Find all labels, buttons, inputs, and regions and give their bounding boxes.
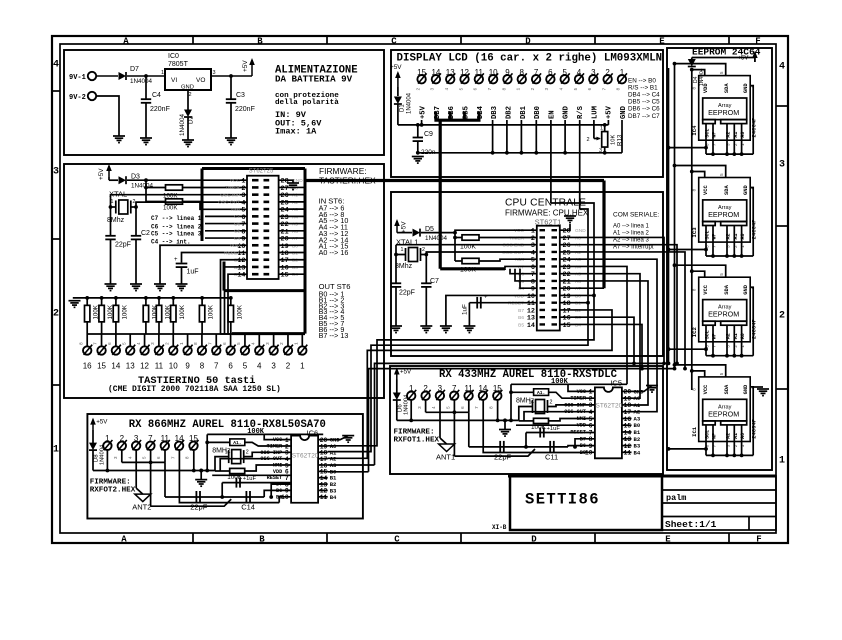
svg-text:A7: A7	[292, 236, 298, 242]
pulldown resistor 100K at x=202.1	[200, 296, 204, 300]
svg-text:palm: palm	[666, 493, 686, 503]
rail lower	[93, 470, 215, 472]
wire A1 to TIMER pin 2	[549, 392, 595, 398]
diode D6	[393, 393, 401, 401]
pulldown resistor 100K at x=87.2	[85, 296, 89, 300]
svg-text:22pF: 22pF	[399, 290, 415, 297]
wire CPU A4 to RX433 VCC rail	[560, 266, 627, 384]
svg-text:B: B	[257, 37, 263, 47]
wire B5 pin 10	[583, 451, 595, 453]
svg-text:1: 1	[779, 456, 785, 467]
wire CPU A6 to RX433 A1	[560, 281, 648, 405]
ST62T1 pin 11 / pin 18	[540, 302, 546, 304]
svg-text:220nF: 220nF	[235, 106, 255, 113]
svg-text:5: 5	[121, 342, 127, 345]
regulator IC0 7805T box	[165, 69, 211, 90]
ground under C3	[225, 137, 237, 139]
svg-text:7: 7	[601, 88, 607, 91]
capacitor C9	[413, 137, 423, 139]
svg-text:A2 --> linea 3: A2 --> linea 3	[613, 238, 650, 244]
IC ST62T1 CPU body	[537, 226, 560, 331]
title block bottom row divider	[748, 517, 750, 531]
svg-text:7: 7	[474, 406, 480, 409]
RX 433MHz section box	[390, 366, 663, 474]
svg-text:5: 5	[573, 88, 579, 91]
EEPROM IC1 SDA wire	[675, 365, 726, 377]
wire VCC rail to pin 1	[568, 384, 595, 391]
svg-text:ANT1: ANT1	[436, 453, 455, 462]
wire D8 to rail	[92, 451, 94, 471]
svg-text:A2: A2	[726, 132, 732, 138]
svg-text:RESET: RESET	[570, 430, 586, 436]
svg-text:A5: A5	[292, 222, 298, 228]
ground top right of chip	[622, 386, 652, 392]
svg-text:A0: A0	[740, 433, 746, 439]
svg-text:B6: B6	[276, 488, 282, 494]
svg-text:B1: B1	[292, 251, 298, 257]
thick data bus DB4-DB7 stubs	[434, 112, 437, 120]
svg-text:A0 --> 16: A0 --> 16	[319, 248, 349, 257]
svg-text:5: 5	[719, 71, 725, 74]
ST62T25 pin 9 / pin 20	[252, 237, 259, 240]
svg-text:della polarità: della polarità	[275, 99, 339, 107]
EEPROM IC1 VCC wire	[692, 371, 705, 377]
wire CPU B0 down to RX866 A0	[328, 295, 594, 445]
wire crystal pin2 to OSC INP pin 3	[244, 452, 291, 456]
wire C3 to ground	[230, 103, 232, 138]
keyboard pulldown ground rail	[73, 297, 231, 299]
svg-text:VCC: VCC	[703, 384, 709, 394]
svg-text:10: 10	[281, 494, 289, 501]
svg-text:+5V: +5V	[400, 369, 412, 376]
EEPROM IC2 SDA wire	[675, 265, 726, 277]
wire resistor to TIMER pin 2	[479, 237, 537, 239]
frame column ticks bottom	[192, 533, 194, 543]
capacitor C7 CPU	[421, 282, 431, 284]
svg-text:5: 5	[458, 88, 464, 91]
thick bus from keyboard ends at pin20 A7	[602, 181, 605, 289]
EEPROM IC1 lower pin labels	[705, 425, 707, 442]
resistor 100K to NMI pin 5	[230, 468, 245, 473]
svg-text:8: 8	[501, 88, 507, 91]
wire CPU B4 to EEPROM bus	[560, 324, 642, 368]
crystal 8MHz IC6	[232, 450, 241, 464]
wire CPU A5 to RX433 A0	[560, 274, 640, 399]
svg-text:TIMER: TIMER	[267, 444, 283, 450]
svg-text:3: 3	[150, 342, 156, 345]
svg-text:A3: A3	[292, 207, 298, 213]
svg-text:100K: 100K	[460, 267, 476, 274]
EEPROM IC2 GND wire	[750, 287, 753, 356]
terminal keyboard 3	[273, 334, 275, 346]
SAW filter A1	[207, 441, 230, 443]
svg-text:RESET: RESET	[224, 250, 240, 256]
wire GND pin1 to ground rail	[621, 120, 623, 153]
svg-text:SCL: SCL	[705, 430, 711, 439]
svg-text:5: 5	[236, 342, 242, 345]
ST62T1 pin 12 / pin 17	[540, 309, 546, 311]
wires B7 B6 B5 to bus line	[221, 260, 248, 334]
title block thick top line	[508, 475, 776, 478]
terminal keyboard 5	[244, 334, 246, 346]
ground under 22pF CPU	[390, 325, 402, 327]
svg-text:1: 1	[53, 445, 59, 456]
thick bus keyboard to CPU	[305, 179, 604, 182]
wire 1uF to ground CPU	[468, 303, 470, 326]
svg-text:+5V: +5V	[738, 56, 749, 62]
EEPROM IC1 array box	[703, 399, 747, 421]
svg-text:NMI: NMI	[577, 416, 586, 422]
pulldown resistor 100K at x=159	[157, 296, 161, 300]
svg-text:+5V: +5V	[242, 60, 249, 72]
svg-text:2: 2	[286, 362, 291, 371]
ST62T25 pin 8 / pin 21	[252, 230, 259, 233]
svg-text:8: 8	[185, 456, 191, 459]
ground under 1uF	[176, 283, 188, 285]
wire CPU B1 down to RX866 A1	[328, 303, 588, 452]
wire xtal to 22pF cap1	[110, 207, 112, 236]
svg-text:B: B	[259, 535, 265, 545]
svg-text:4: 4	[53, 60, 59, 71]
svg-text:SDA: SDA	[724, 384, 730, 394]
EEPROM +5V top wire	[692, 57, 755, 59]
svg-text:F: F	[756, 535, 761, 545]
terminal keyboard 7	[215, 334, 217, 346]
svg-text:A: A	[123, 37, 129, 47]
wire node down to resistors	[145, 180, 147, 201]
svg-text:2: 2	[415, 88, 421, 91]
lower rail b	[150, 462, 152, 506]
svg-text:1N4004: 1N4004	[407, 92, 413, 114]
wire GND pin5 to ground rail	[564, 120, 566, 153]
drawing frame inner border	[60, 44, 776, 533]
terminal 9V-1	[88, 72, 96, 80]
svg-text:A6: A6	[292, 229, 298, 235]
svg-text:1: 1	[179, 342, 185, 345]
svg-text:GND: GND	[181, 85, 194, 91]
svg-text:3: 3	[53, 167, 59, 178]
wire pin15 +5V column	[421, 120, 423, 125]
wire to C7 cap CPU	[425, 255, 427, 284]
svg-text:R/S: R/S	[577, 105, 585, 119]
capacitor C3	[226, 98, 236, 100]
wire xtal to cap C2	[135, 207, 137, 236]
svg-text:VDD: VDD	[703, 83, 709, 93]
svg-text:A0: A0	[740, 132, 746, 138]
svg-text:IC0: IC0	[168, 53, 179, 60]
wire LUM to potentiometer wiper	[593, 120, 595, 139]
capacitor C4	[141, 98, 151, 100]
svg-text:C: C	[391, 37, 397, 47]
svg-text:A0: A0	[292, 185, 298, 191]
svg-text:C14: C14	[241, 503, 255, 512]
wire CPU A2 right vertical	[560, 252, 685, 369]
ST62T25 pin 2 / pin 27	[252, 186, 259, 189]
svg-text:E: E	[659, 37, 665, 47]
svg-text:COM SERIALE:: COM SERIALE:	[613, 212, 659, 219]
svg-text:GND: GND	[563, 105, 571, 119]
svg-text:9V-1: 9V-1	[69, 74, 86, 82]
svg-text:1: 1	[401, 247, 404, 253]
junction node C3	[229, 74, 233, 78]
+5V rail wire	[398, 124, 609, 126]
svg-text:+: +	[484, 295, 488, 301]
svg-text:14: 14	[111, 362, 120, 371]
LCD display section box	[391, 50, 663, 177]
terminal keyboard 15	[101, 334, 103, 346]
wires ST62T25 right pins to bus bar	[279, 186, 304, 188]
ST62T25 pin 7 / pin 22	[252, 222, 259, 225]
capacitor 22pF keyboard 1	[105, 235, 115, 237]
capacitor 22pF CPU	[391, 282, 401, 284]
ST62T1 pin 14 / pin 15	[540, 323, 546, 325]
svg-text:1: 1	[225, 450, 228, 456]
svg-text:WP: WP	[712, 333, 718, 339]
wire 1uF to ground	[181, 267, 183, 284]
terminal keyboard 16	[86, 334, 88, 346]
middle band wire H4 to EEPROM SCL bus	[375, 363, 669, 465]
svg-text:E: E	[665, 535, 671, 545]
wire LCD R/S to CPU B1	[580, 209, 588, 303]
EEPROM block IC1 ground symbol	[753, 386, 763, 388]
ST62T25 pin 12 / pin 17	[252, 258, 259, 261]
svg-text:6: 6	[460, 406, 466, 409]
wire OSC OUT pin 4	[220, 459, 291, 471]
antenna ANT2	[135, 494, 151, 502]
svg-text:DB6 --> C6: DB6 --> C6	[628, 106, 660, 113]
svg-text:EEPROM: EEPROM	[708, 210, 739, 219]
terminal keyboard 13	[129, 334, 131, 346]
pulldown resistor 100K at x=145.9	[144, 296, 148, 300]
svg-text:NMI: NMI	[231, 207, 240, 213]
svg-text:6: 6	[228, 362, 233, 371]
svg-text:SCL: SCL	[705, 330, 711, 339]
potentiometer R13 wiper arrow	[594, 138, 600, 140]
svg-text:3: 3	[265, 342, 271, 345]
svg-text:1uF: 1uF	[187, 269, 199, 276]
svg-text:A1: A1	[733, 132, 739, 138]
wire VDD pin 6	[516, 424, 595, 426]
svg-text:1N4004: 1N4004	[130, 78, 153, 85]
junction xtal cap2	[134, 205, 138, 209]
svg-text:D: D	[525, 37, 531, 47]
wire B7 pin 8	[575, 439, 595, 447]
svg-text:R13: R13	[617, 134, 624, 146]
ST62T1 pin 2 / pin 27	[540, 236, 546, 238]
pulldown resistor 100K at x=173.3	[171, 296, 175, 300]
svg-text:LUM: LUM	[591, 106, 599, 119]
svg-text:4: 4	[431, 406, 437, 409]
wire xtal1 pin1 to OSC pin 3	[396, 245, 406, 255]
EEPROM IC3 socket notches	[703, 222, 716, 226]
EEPROM IC2 SCL wire	[669, 342, 707, 349]
ST62T1 pin 9 / pin 20	[540, 287, 546, 289]
svg-text:1: 1	[300, 362, 305, 371]
junction C9 on +5V rail	[416, 123, 420, 127]
svg-text:IC2: IC2	[691, 326, 698, 337]
svg-text:DB4 --> C4: DB4 --> C4	[628, 92, 660, 99]
svg-text:8: 8	[193, 342, 199, 345]
svg-text:+5V: +5V	[401, 221, 408, 233]
svg-text:A4: A4	[292, 214, 298, 220]
svg-text:VCC: VCC	[230, 178, 241, 184]
svg-text:8: 8	[692, 288, 698, 291]
pulldown resistor 100K at x=101.6	[100, 296, 104, 300]
terminal keyboard 9	[187, 334, 189, 346]
diode D1	[394, 97, 402, 105]
svg-text:3: 3	[430, 88, 436, 91]
wire cap1 to ground	[110, 239, 112, 284]
svg-text:A1: A1	[733, 433, 739, 439]
svg-text:B7 --> 13: B7 --> 13	[319, 331, 349, 340]
wire D2 to ground	[187, 118, 189, 141]
svg-text:OSC OUT: OSC OUT	[260, 456, 282, 462]
title block main box	[510, 476, 662, 530]
EEPROM IC4 socket notches	[703, 120, 716, 124]
svg-text:C5: C5	[234, 229, 240, 235]
EEPROM IC2 outer box	[699, 277, 751, 342]
svg-text:FIRMWARE: CPU.HEX: FIRMWARE: CPU.HEX	[505, 209, 589, 218]
wire VDD pin 10 to ground	[160, 245, 247, 284]
svg-text:24C64P: 24C64P	[751, 318, 758, 339]
wire VDD pin 10 to ground	[446, 295, 537, 326]
svg-text:B2: B2	[292, 258, 298, 264]
RX 866MHz section box	[87, 414, 363, 519]
SAW filter A1	[511, 391, 534, 393]
svg-text:8: 8	[616, 88, 622, 91]
svg-text:7: 7	[214, 362, 219, 371]
svg-text:GND: GND	[743, 384, 749, 394]
svg-text:TIMER: TIMER	[225, 185, 240, 191]
svg-text:IC5: IC5	[610, 379, 622, 388]
antenna ANT1	[439, 444, 455, 452]
EEPROM IC4 SDA wire	[675, 64, 726, 76]
svg-text:15: 15	[281, 272, 289, 280]
rail lower	[397, 419, 519, 421]
junction node C4	[144, 74, 148, 78]
LCD data bus fanout to pins 6-9	[505, 266, 537, 268]
capacitor 1uF on RESET pin 7	[222, 482, 291, 484]
svg-text:8: 8	[489, 406, 495, 409]
svg-text:C7 --> linea 1: C7 --> linea 1	[151, 215, 202, 222]
svg-text:13: 13	[126, 362, 135, 371]
svg-text:GND: GND	[743, 83, 749, 93]
VCC top rail with 100K	[511, 383, 627, 385]
svg-text:100K: 100K	[208, 304, 215, 319]
svg-text:A1: A1	[292, 193, 298, 199]
capacitor C2 22pF keyboard 2	[131, 235, 141, 237]
resistor 100K nmi keyboard	[166, 199, 183, 204]
svg-text:C4: C4	[234, 236, 240, 242]
resistor 100K to NMI pin 5	[534, 418, 549, 423]
svg-text:8Mhz: 8Mhz	[395, 263, 413, 270]
svg-text:C7: C7	[430, 278, 439, 285]
terminal keyboard 14	[115, 334, 117, 346]
capacitor 1uF on RESET pin 7	[526, 432, 595, 434]
wire +5V to diode D5	[396, 231, 398, 234]
svg-text:TASTIERI.HEX: TASTIERI.HEX	[319, 176, 376, 186]
power supply section box	[64, 50, 384, 155]
svg-text:8: 8	[692, 189, 698, 192]
svg-text:3: 3	[213, 70, 216, 76]
EEPROM IC3 GND wire	[750, 188, 753, 257]
svg-text:10: 10	[585, 450, 593, 457]
svg-text:WP: WP	[712, 433, 718, 439]
svg-text:A2: A2	[726, 233, 732, 239]
pulldown resistor 100K at x=230.8	[229, 296, 233, 300]
IC IC6 ST62T20 body	[291, 436, 318, 503]
CPU +5V arrow	[396, 221, 398, 232]
antenna ANT1 wire from terminal 3	[439, 400, 441, 438]
wire crystal pin1 down to rail	[519, 407, 533, 421]
svg-text:RXFOT2.HEX: RXFOT2.HEX	[90, 487, 136, 495]
svg-text:DB2: DB2	[505, 106, 513, 119]
svg-text:7805T: 7805T	[168, 61, 189, 68]
EEPROM IC3 VCC wire	[692, 172, 705, 178]
svg-text:C3: C3	[236, 92, 245, 99]
svg-text:WP: WP	[712, 132, 718, 138]
svg-text:RXFOT1.HEX: RXFOT1.HEX	[394, 437, 440, 445]
EEPROM IC1 socket notches	[703, 421, 716, 425]
VCC top rail with 100K	[207, 433, 323, 435]
svg-text:5: 5	[719, 372, 725, 375]
wire 9V-1 to diode D7	[97, 75, 119, 77]
svg-text:+1uF: +1uF	[547, 426, 561, 432]
svg-text:5: 5	[243, 362, 248, 371]
thick data bus bar	[434, 119, 480, 122]
svg-text:3: 3	[113, 456, 119, 459]
svg-text:EEPROM: EEPROM	[708, 310, 739, 319]
svg-text:A1.: A1.	[537, 390, 545, 396]
frame row ticks left	[52, 90, 60, 92]
antenna ANT2 wire from terminal 3	[135, 450, 137, 488]
EEPROM IC3 array box	[703, 200, 747, 222]
svg-text:RX 433MHZ AUREL 8110-RXSTDLC: RX 433MHZ AUREL 8110-RXSTDLC	[439, 369, 618, 381]
wire crystal pin1 down to rail	[215, 457, 229, 471]
wire rail to B6 pin 9	[264, 490, 291, 497]
diode D7	[119, 72, 127, 80]
resistor 100K CPU timer	[455, 237, 462, 239]
diode D3	[119, 176, 127, 184]
svg-text:1N4004: 1N4004	[131, 183, 154, 190]
ground under C9	[412, 156, 424, 158]
svg-text:FIRMWARE:: FIRMWARE:	[90, 479, 131, 487]
capacitor 1uF CPU on RESET	[469, 302, 536, 304]
terminal keyboard 6	[230, 334, 232, 346]
wire CPU A1 right vertical	[560, 245, 677, 364]
terminal keyboard 10	[172, 334, 174, 346]
wire R13 pin1 to +5V rail	[604, 125, 606, 132]
svg-text:5: 5	[719, 273, 725, 276]
wire to 22pF CPU	[395, 255, 397, 284]
+5V arrow power supply output	[251, 60, 253, 76]
ST62T1 pin 7 / pin 22	[540, 273, 546, 275]
svg-text:A1 --> linea 2: A1 --> linea 2	[613, 231, 650, 237]
svg-text:2: 2	[530, 88, 536, 91]
wire D6 to rail	[396, 401, 398, 421]
svg-text:3: 3	[271, 362, 276, 371]
ST62T25 pin 11 / pin 18	[252, 251, 259, 254]
svg-text:DB5 --> C5: DB5 --> C5	[628, 99, 660, 106]
svg-text:XI-B: XI-B	[492, 524, 507, 531]
svg-text:2: 2	[779, 311, 785, 322]
svg-text:EEPROM: EEPROM	[708, 409, 739, 418]
svg-text:7: 7	[487, 88, 493, 91]
svg-text:A0: A0	[740, 333, 746, 339]
wires DB3-DB0 to ground rail with junctions	[492, 120, 494, 153]
ground under C7	[420, 325, 432, 327]
svg-text:4: 4	[444, 88, 450, 91]
